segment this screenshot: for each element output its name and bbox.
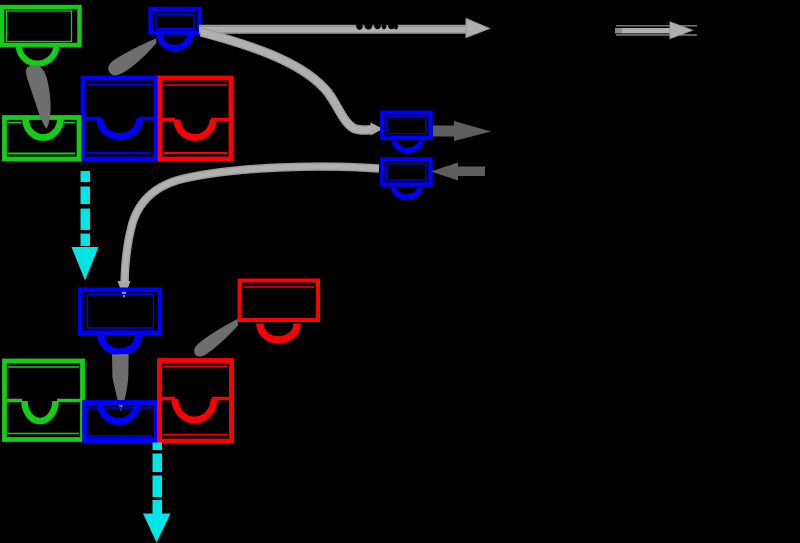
blue plug top <box>151 9 200 48</box>
long gray arrow top (with black text bottoms crossing it) <box>199 19 490 38</box>
blue socket block upper row <box>83 78 156 159</box>
cyan dashed arrow upper <box>72 171 99 281</box>
arrowhead of curve at lower blue plug <box>118 281 131 299</box>
small blue plug 2 <box>382 160 430 198</box>
big gray curve from blue plug to small plug 1 <box>201 32 372 130</box>
red socket block lower row <box>160 361 232 442</box>
dark gray arrow pointing left at plug 2 <box>431 163 485 181</box>
red plug lower group <box>240 281 319 341</box>
blue socket block lower row <box>85 403 157 441</box>
gray wedge arrow lower blue plug to socket <box>112 354 129 412</box>
arrowhead of curve at small plug 1 <box>371 123 384 136</box>
short gray arrow top right <box>615 22 697 39</box>
gray wedge arrow green plug to green socket <box>26 65 51 129</box>
lower blue plug <box>80 290 160 352</box>
green socket block upper row <box>5 118 80 160</box>
small blue plug 1 <box>382 113 430 151</box>
green socket block lower row <box>5 361 83 440</box>
cyan dashed arrow lower <box>143 443 171 543</box>
dark gray arrow pointing right from plug 1 <box>433 121 491 141</box>
gray wedge arrow red plug to red socket <box>194 319 238 357</box>
black text fragment overlapping top arrow <box>356 22 398 30</box>
red socket block upper row <box>160 78 231 159</box>
big gray curve from small plug 2 to lower blue plug <box>125 167 380 284</box>
green plug top-left <box>2 7 80 64</box>
gray wedge arrow pointing to blue plug <box>108 39 156 76</box>
